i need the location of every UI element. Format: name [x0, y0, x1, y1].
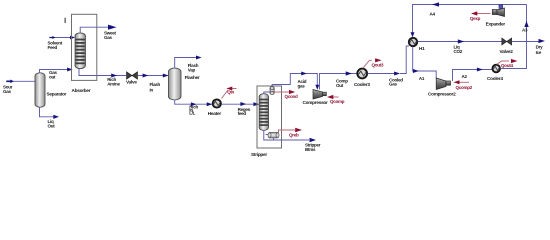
label Stripper	[251, 152, 267, 157]
subflowsheet box Stripper	[257, 86, 282, 148]
svg-text:Gas: Gas	[104, 35, 113, 40]
label Regen feed	[238, 107, 251, 116]
compressor K-100	[313, 90, 326, 100]
svg-text:Qcond: Qcond	[285, 94, 299, 99]
svg-text:Qin: Qin	[227, 90, 234, 95]
label Qexp	[470, 16, 481, 21]
wire Sour Gas line	[6, 80, 35, 84]
label Gas out	[49, 70, 58, 79]
label Qin	[227, 90, 234, 95]
label Flasher	[185, 75, 200, 80]
energy stream Qexp	[471, 11, 491, 15]
svg-text:Separator: Separator	[47, 92, 67, 97]
label Cooled Gas	[389, 77, 403, 86]
svg-text:A4: A4	[430, 12, 436, 17]
tiny mark near absorber box	[65, 18, 66, 23]
wire Comp Out line	[320, 71, 358, 89]
label Flash Vap	[188, 63, 199, 72]
label Sour Gas	[3, 84, 13, 94]
svg-text:L/L: L/L	[189, 110, 195, 115]
label Sweet Gas	[104, 30, 117, 39]
svg-text:A1: A1	[419, 76, 425, 81]
condenser drum	[270, 87, 274, 95]
svg-text:Valve2: Valve2	[500, 49, 514, 54]
svg-text:Qout4: Qout4	[501, 63, 513, 68]
wire Rich to L/L line	[175, 100, 213, 107]
wire Liq Out line	[40, 107, 60, 119]
svg-text:Qcomp: Qcomp	[330, 99, 345, 104]
valve VLV-100	[127, 72, 138, 79]
expander K-102	[492, 5, 504, 17]
wire Sweet Gas line	[80, 25, 116, 33]
compressor K-101 Compressor2	[436, 78, 450, 90]
label Valve2	[500, 49, 514, 54]
svg-text:Compressor2: Compressor2	[428, 92, 456, 97]
svg-text:Qcomp2: Qcomp2	[456, 85, 473, 90]
svg-text:Cooler3: Cooler3	[354, 82, 370, 87]
svg-text:Stripper: Stripper	[251, 152, 267, 157]
wire A4 line	[411, 2, 527, 37]
svg-text:In: In	[150, 87, 154, 92]
svg-text:Expander: Expander	[486, 22, 506, 27]
label A1	[419, 76, 425, 81]
svg-text:Absorber: Absorber	[72, 88, 91, 93]
svg-text:Vap: Vap	[188, 67, 196, 72]
wire A3 line	[501, 5, 529, 69]
energy stream Qcond	[274, 90, 295, 94]
wire Regen feed line	[222, 102, 260, 106]
heat exchanger H1	[409, 38, 417, 46]
label H1	[419, 46, 425, 51]
svg-text:CO2: CO2	[454, 49, 463, 54]
svg-text:Heater: Heater	[208, 111, 222, 116]
label Compressor	[303, 100, 329, 105]
label Qcomp2	[456, 85, 473, 90]
energy stream Qreb	[279, 128, 303, 133]
label Absorber	[72, 88, 91, 93]
svg-text:Out: Out	[336, 83, 344, 88]
label A3	[522, 28, 528, 33]
svg-text:Qout3: Qout3	[372, 62, 384, 67]
label Rich Amine	[107, 77, 120, 86]
label Valve	[126, 80, 137, 85]
svg-text:Compressor: Compressor	[303, 100, 329, 105]
label Dry Ice	[536, 45, 544, 55]
label Heater	[208, 111, 222, 116]
svg-text:Gas: Gas	[3, 89, 12, 94]
svg-text:Ice: Ice	[536, 50, 542, 55]
wire A1 line	[413, 47, 437, 79]
svg-text:feed: feed	[238, 111, 247, 116]
label Qout3	[372, 62, 384, 67]
energy stream Qout4	[497, 59, 518, 65]
svg-text:Out: Out	[48, 124, 56, 129]
wire H1 hot inlet riser	[400, 46, 409, 74]
label A2	[462, 74, 468, 79]
cooler E-101 Cooler3	[357, 69, 367, 79]
label Stripper Btms	[305, 143, 321, 152]
wire Liq CO2 line	[418, 39, 502, 43]
svg-text:out: out	[49, 75, 56, 80]
label Separator	[47, 92, 67, 97]
label Qcond	[285, 94, 299, 99]
wire Dry Ice line	[512, 39, 545, 43]
wire Stripper Btms line	[264, 130, 316, 142]
energy stream Qin	[222, 87, 237, 99]
label Qout4	[501, 63, 513, 68]
svg-text:A3: A3	[522, 28, 528, 33]
vessel Separator	[35, 73, 45, 107]
svg-text:Gas: Gas	[389, 82, 398, 87]
svg-text:Qexp: Qexp	[470, 16, 481, 21]
subflowsheet box Absorber	[72, 14, 97, 80]
svg-text:gas: gas	[298, 84, 306, 89]
label Rich to L/L	[189, 105, 198, 116]
wire A2 line	[453, 68, 493, 82]
wire Gas out line	[40, 68, 73, 74]
label Acid gas	[298, 79, 307, 89]
valve VLV-101 Valve2	[502, 38, 512, 45]
svg-text:H1: H1	[419, 46, 425, 51]
heater E-100	[213, 99, 221, 107]
wire Flash Vap line	[175, 56, 202, 69]
label Qcomp	[330, 99, 345, 104]
vessel Flasher	[168, 68, 181, 100]
reboiler drum	[268, 133, 279, 138]
wire column bottom to reboiler	[266, 134, 269, 136]
label Solvent Feed	[48, 41, 63, 50]
column Absorber T-100	[75, 33, 85, 69]
label Comp Out	[336, 79, 348, 88]
label Expander	[486, 22, 506, 27]
svg-text:Btms: Btms	[305, 147, 316, 152]
wire Solvent Feed line	[49, 36, 75, 40]
cooler E-102 Cooler4	[492, 65, 500, 73]
svg-text:Cooler4: Cooler4	[487, 76, 503, 81]
svg-text:Qreb: Qreb	[289, 132, 299, 137]
label Cooler4	[487, 76, 503, 81]
label Liq CO2	[454, 45, 463, 55]
energy stream Qcomp2	[454, 80, 470, 84]
svg-text:Amine: Amine	[107, 81, 120, 86]
wire Flash In line	[138, 74, 169, 78]
wire Cooled Gas line	[368, 72, 401, 76]
label Cooler3	[354, 82, 370, 87]
column Stripper T-101	[259, 94, 268, 131]
label Flash In	[150, 82, 161, 92]
wire Acid gas line	[272, 72, 319, 90]
svg-text:Feed: Feed	[48, 45, 58, 50]
svg-text:Dry: Dry	[536, 45, 544, 50]
energy stream Qout3	[363, 58, 382, 68]
label Qreb	[289, 132, 299, 137]
svg-text:Flasher: Flasher	[185, 75, 200, 80]
wire column top to condenser	[264, 92, 270, 94]
energy stream Qcomp	[327, 95, 339, 99]
label Liq Out	[48, 119, 56, 128]
svg-text:A2: A2	[462, 74, 468, 79]
label Compressor2	[428, 92, 456, 97]
label A4	[430, 12, 436, 17]
svg-text:Valve: Valve	[126, 80, 137, 85]
wire Rich Amine line	[79, 69, 126, 78]
